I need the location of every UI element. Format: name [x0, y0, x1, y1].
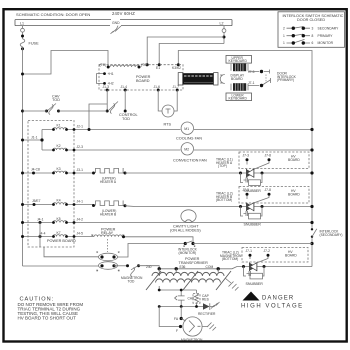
svg-text:J7-2: J7-2: [264, 249, 271, 253]
svg-text:3: 3: [312, 26, 314, 30]
wire control circuit to M1 row: [89, 104, 107, 130]
svg-text:TOD: TOD: [52, 98, 60, 102]
svg-text:SNUBBER: SNUBBER: [246, 282, 264, 286]
svg-text:2: 2: [283, 26, 285, 30]
svg-text:TOD: TOD: [128, 279, 136, 283]
triac block heater B dashed box: [239, 187, 309, 204]
power relay contacts: [99, 253, 118, 261]
capacitor H.V. CAP: [175, 296, 185, 300]
triac Q1: [247, 161, 269, 170]
upper keyboard box: [226, 56, 252, 64]
ground symbol at bus: [111, 26, 122, 34]
ribbon connector upper: [233, 64, 246, 72]
svg-text:BOARD: BOARD: [231, 77, 243, 81]
ribbon connector lower: [233, 83, 246, 91]
svg-text:MAGNETRON: MAGNETRON: [181, 338, 203, 342]
svg-text:J7-8: J7-8: [265, 153, 272, 157]
svg-text:HV BOARD TO SHORT OUT: HV BOARD TO SHORT OUT: [18, 316, 77, 321]
svg-text:6: 6: [312, 41, 314, 45]
danger high voltage warning: [243, 292, 260, 301]
rectifier ground: [211, 302, 220, 309]
RTS sensor leads: [158, 90, 177, 111]
cooling fan row wire: [89, 129, 312, 131]
svg-text:DOOR CLOSED: DOOR CLOSED: [297, 18, 325, 22]
svg-text:J1-6: J1-6: [154, 85, 161, 89]
svg-text:240V 60HZ: 240V 60HZ: [112, 11, 135, 16]
node C2: [146, 63, 149, 66]
svg-text:MONITOR: MONITOR: [318, 41, 334, 45]
magnetron TOD switch: [131, 266, 138, 277]
svg-text:POWER BOARD: POWER BOARD: [47, 239, 76, 243]
HV cap circuit top rail: [159, 286, 196, 307]
svg-text:J5/E7: J5/E7: [32, 199, 41, 203]
wire L2 to node C2: [147, 37, 224, 65]
node CAV TOD right: [57, 110, 60, 113]
svg-text:(PRIMARY): (PRIMARY): [277, 78, 294, 82]
L2 terminal circle: [222, 29, 226, 33]
svg-text:J3-1: J3-1: [77, 168, 84, 172]
wire K5-K7 link: [39, 223, 41, 248]
svg-text:M1: M1: [184, 127, 189, 131]
svg-text:RTS: RTS: [164, 123, 172, 127]
HV transformer primary terminal row: [159, 267, 312, 269]
svg-text:J4-1: J4-1: [77, 200, 84, 204]
heater A element: [96, 168, 124, 173]
TC sub terminals H1 H2: [97, 74, 105, 84]
power board relay dashed box: [28, 121, 74, 248]
power board upper dashed box: [99, 65, 183, 90]
interlock secondary switch on right bus: [310, 228, 314, 238]
wire contacts to magnetron TOD: [114, 265, 128, 267]
convection fan row wire: [89, 149, 312, 151]
cavity light lamp: [180, 222, 312, 224]
triac block magnetron dashed box: [242, 248, 308, 263]
svg-text:M2: M2: [184, 148, 189, 152]
wire TOD to transformer 240 terminal: [139, 266, 160, 269]
svg-text:E36: E36: [180, 265, 186, 269]
svg-text:(TC): (TC): [100, 63, 107, 67]
wire monitor row to bus: [193, 243, 312, 245]
wire filament F: [159, 307, 179, 327]
RTS sensor circle: [162, 105, 174, 117]
svg-text:J1-3: J1-3: [103, 85, 110, 89]
wire K3/K2 node to right bus: [178, 51, 312, 267]
wire contact out to monitor row: [118, 244, 186, 258]
svg-text:+H1: +H1: [108, 72, 114, 76]
svg-text:F: F: [176, 329, 178, 333]
svg-text:FUSE: FUSE: [29, 42, 40, 46]
svg-text:J7-8: J7-8: [265, 188, 272, 192]
svg-text:J2-3: J2-3: [77, 145, 84, 149]
svg-text:1: 1: [283, 41, 285, 45]
svg-text:J7-3: J7-3: [243, 153, 250, 157]
supply bus terminal box L1-L2: [15, 20, 232, 26]
control TOD loop wires: [107, 90, 125, 111]
motor M1 cooling fan: [181, 122, 193, 134]
svg-text:HEATER A: HEATER A: [100, 180, 117, 184]
svg-text:J1-1: J1-1: [31, 136, 38, 140]
svg-text:K2: K2: [57, 144, 61, 148]
svg-text:J4-2: J4-2: [77, 218, 84, 222]
svg-text:KEYBOARD: KEYBOARD: [229, 59, 248, 63]
svg-text:SECONDARY: SECONDARY: [318, 26, 340, 30]
node E1: [158, 63, 161, 66]
svg-text:J1-7: J1-7: [173, 85, 180, 89]
svg-text:(ON ALL MODES): (ON ALL MODES): [170, 228, 201, 232]
svg-text:L1: L1: [20, 21, 24, 25]
svg-text:J7-5: J7-5: [243, 188, 250, 192]
triac block heater A dashed box: [239, 152, 309, 169]
svg-text:8: 8: [312, 34, 314, 38]
svg-text:J2-1: J2-1: [77, 125, 84, 129]
svg-text:K4: K4: [57, 199, 61, 203]
svg-text:J7-5: J7-5: [248, 70, 255, 74]
wire contact feeds: [23, 247, 99, 266]
svg-text:J7-1: J7-1: [248, 81, 255, 85]
connector J2 brackets: [220, 75, 225, 84]
node TC left: [107, 66, 110, 69]
node on left bus y74: [21, 73, 24, 76]
power board bottom terminals J1-3 J1-4 J1-6 J1-7: [106, 89, 109, 92]
power relay actuator dashed: [107, 239, 109, 252]
svg-text:K3: K3: [57, 167, 61, 171]
svg-text:TOD: TOD: [122, 117, 130, 121]
magnetron: [183, 317, 202, 336]
wire terminal stubs into winding: [159, 269, 218, 273]
snubber 2: [241, 207, 263, 217]
wire filament FA: [180, 307, 182, 319]
wire L2 stub: [223, 26, 225, 44]
svg-text:J4-C8: J4-C8: [31, 168, 40, 172]
svg-text:L2: L2: [220, 21, 224, 25]
node L1a: [21, 35, 24, 38]
svg-text:SNUBBER: SNUBBER: [244, 222, 262, 226]
L1 terminal circle: [21, 28, 25, 32]
control TOD switch: [109, 102, 118, 114]
lower keyboard box: [226, 93, 252, 101]
node CAV TOD left: [45, 110, 48, 113]
svg-text:K3/K2: K3/K2: [172, 66, 181, 70]
svg-text:RECTIFIER: RECTIFIER: [198, 312, 216, 316]
snubber 1: [241, 173, 263, 183]
svg-text:1: 1: [283, 34, 285, 38]
motor M2 convection fan: [181, 143, 193, 155]
wire L2 to node E1: [159, 44, 224, 65]
heater B row wire to triac: [125, 205, 312, 208]
HV bottom rail: [159, 306, 203, 308]
wire CAV TOD row: [23, 110, 108, 112]
triac Q3: [250, 257, 268, 264]
node TC right: [138, 66, 141, 69]
rectifier diode: [203, 303, 210, 309]
svg-text:E1: E1: [156, 66, 160, 70]
node L2: [223, 36, 226, 39]
svg-text:COM: COM: [206, 265, 214, 269]
fuse FUSE: [20, 39, 25, 47]
svg-text:RES: RES: [202, 297, 210, 301]
svg-text:SCHEMATIC CONDITION: DOOR OPEN: SCHEMATIC CONDITION: DOOR OPEN: [16, 12, 90, 17]
HV transformer winding: [146, 271, 231, 290]
wire K1K2 feed: [23, 130, 43, 151]
node control TOD right: [124, 110, 127, 113]
wire staircase L1 to transformer TC: [23, 51, 109, 75]
transformer right ground: [225, 278, 239, 291]
triac Q2: [247, 196, 269, 204]
svg-text:240: 240: [146, 265, 152, 269]
svg-text:K1: K1: [57, 124, 61, 128]
svg-text:BOARD: BOARD: [136, 79, 150, 83]
svg-text:(TC): (TC): [141, 63, 148, 67]
line filter choke cylinder: [183, 73, 215, 84]
wire L1 drop: [22, 26, 24, 39]
svg-text:HEATER B: HEATER B: [100, 213, 117, 217]
svg-text:COOLING FAN: COOLING FAN: [176, 137, 202, 141]
svg-text:J4-5: J4-5: [77, 232, 84, 236]
svg-text:J7-1: J7-1: [246, 249, 253, 253]
svg-text:(MONITOR): (MONITOR): [179, 251, 197, 255]
svg-text:J1-4: J1-4: [121, 85, 128, 89]
node K3/K2: [177, 63, 180, 66]
svg-text:BOARD: BOARD: [288, 158, 300, 162]
interlock switch schematic box: [278, 12, 345, 48]
transformer TC primary coil: [110, 65, 139, 67]
svg-text:KEYBOARD: KEYBOARD: [229, 97, 248, 101]
resistor bleed dashed: [193, 294, 200, 304]
node bus monitor row: [310, 242, 313, 245]
svg-text:J4-1: J4-1: [37, 218, 44, 222]
snubber 3: [244, 267, 265, 277]
node control TOD left: [106, 110, 109, 113]
svg-text:BOARD: BOARD: [288, 192, 300, 196]
svg-text:DANGER: DANGER: [262, 296, 294, 302]
heater A row wire to triac: [125, 172, 312, 174]
svg-text:(TOP): (TOP): [218, 164, 227, 168]
svg-text:HIGH VOLTAGE: HIGH VOLTAGE: [241, 304, 304, 310]
svg-text:(SECONDARY): (SECONDARY): [320, 233, 343, 237]
svg-text:CONVECTION FAN: CONVECTION FAN: [173, 159, 207, 163]
svg-text:BOARD: BOARD: [285, 253, 297, 257]
heater B element: [96, 201, 124, 206]
svg-text:GND: GND: [112, 21, 120, 25]
node below fuse: [21, 47, 24, 50]
wire coil output bridge to monitor switch: [125, 237, 194, 244]
svg-text:(BOTTOM): (BOTTOM): [222, 257, 238, 261]
svg-text:(BOTTOM): (BOTTOM): [216, 198, 232, 202]
monitor interlock switch: [184, 242, 187, 245]
node on bus at CAV row: [21, 110, 24, 113]
magnetron ground: [202, 323, 216, 331]
svg-text:PRIMARY: PRIMARY: [318, 34, 334, 38]
wire left main bus: [22, 47, 24, 266]
